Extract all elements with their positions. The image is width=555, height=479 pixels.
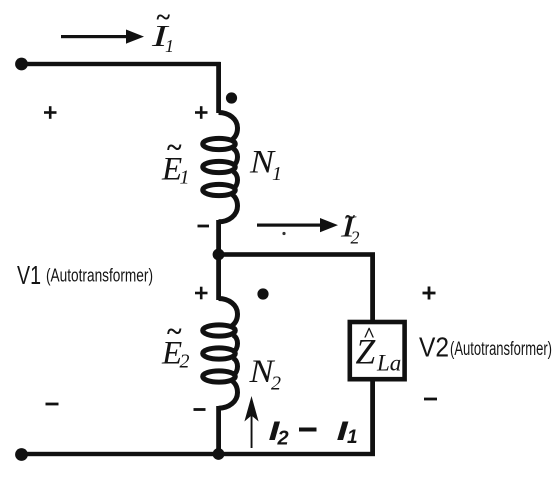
arrow I2 current direction [257,218,338,232]
svg-text:(Autotransformer): (Autotransformer) [450,339,552,360]
label I2 (phasor current) [340,207,360,248]
terminal dot top-left [15,58,28,71]
svg-text:La: La [376,351,401,376]
svg-text:~: ~ [157,3,171,32]
label V2 (Autotransformer) [419,332,552,363]
label E2 (phasor emf) [161,317,190,373]
label N2 turns [248,354,281,395]
svg-text:2: 2 [271,373,281,395]
minus sign in I2-I1 label [299,428,317,432]
arrow I1 current direction [61,30,144,44]
wire top-right vertical drop [216,62,221,113]
svg-text:1: 1 [347,427,358,448]
wire vertical winding N2 to bottom [216,406,221,456]
plus sign winding N1 top [195,106,208,119]
label E1 (phasor emf) [161,133,190,189]
polarity dot winding N2 [257,288,268,299]
svg-text:~: ~ [167,317,182,348]
wire top horizontal [21,62,221,66]
svg-text:~: ~ [167,133,182,164]
svg-text:2: 2 [277,428,289,450]
wire bottom horizontal [21,452,375,456]
inductor winding N1 [203,113,238,222]
arrow I2-I1 branch current (up) [244,396,258,448]
load impedance box ZLa [350,322,405,379]
svg-text:^: ^ [363,323,375,347]
minus sign right (V2 -) [424,398,437,401]
minus sign winding N1 bottom [198,225,210,228]
svg-text:~: ~ [345,207,355,228]
plus sign left (V1 +) [44,106,57,119]
svg-text:V1: V1 [17,260,41,290]
svg-text:1: 1 [180,167,190,189]
wire right vertical upper [370,253,375,323]
inductor winding N2 [203,299,238,409]
svg-text:2: 2 [351,228,360,248]
label I2 - I1 branch current [269,416,358,449]
minus sign winding N2 bottom [194,408,206,411]
wire right vertical lower [370,379,375,456]
svg-text:1: 1 [165,36,174,56]
polarity dot winding N1 [226,92,237,103]
label I1 (phasor current) [151,3,174,57]
terminal dot bottom-left [15,448,28,461]
wire vertical between windings [216,220,221,300]
label ZLa (load impedance) [356,323,402,376]
plus sign right (V2 +) [423,287,436,300]
svg-text:2: 2 [180,351,190,373]
svg-text:1: 1 [272,163,282,185]
svg-text:V2: V2 [419,332,449,363]
label V1 (Autotransformer) [17,260,153,290]
plus sign winding N2 top [195,287,208,300]
svg-text:(Autotransformer): (Autotransformer) [46,266,153,286]
junction dot bottom tap [213,448,225,460]
label N1 turns [249,145,282,186]
minus sign left (V1 -) [46,403,59,406]
wire middle horizontal tap [218,252,375,257]
junction dot middle tap [213,249,225,261]
small speck artifact [282,232,285,235]
